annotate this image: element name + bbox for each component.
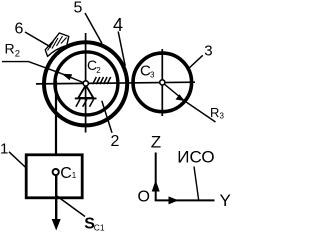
svg-text:3: 3 [220,112,225,121]
svg-text:2: 2 [111,133,120,150]
svg-text:R: R [5,41,15,57]
svg-text:O: O [138,189,150,206]
svg-text:2: 2 [15,48,20,59]
svg-text:1: 1 [72,171,77,180]
svg-text:Z: Z [151,133,161,152]
svg-text:C: C [60,165,72,182]
svg-text:R: R [210,105,219,120]
svg-text:5: 5 [74,0,83,16]
svg-text:2: 2 [96,66,101,75]
svg-text:6: 6 [15,21,24,38]
svg-text:3: 3 [204,42,212,59]
svg-text:C1: C1 [94,222,105,232]
svg-text:1: 1 [0,141,8,158]
svg-text:ИСО: ИСО [177,147,214,166]
svg-text:4: 4 [113,15,123,35]
svg-text:Y: Y [220,191,231,210]
svg-text:3: 3 [150,71,155,80]
